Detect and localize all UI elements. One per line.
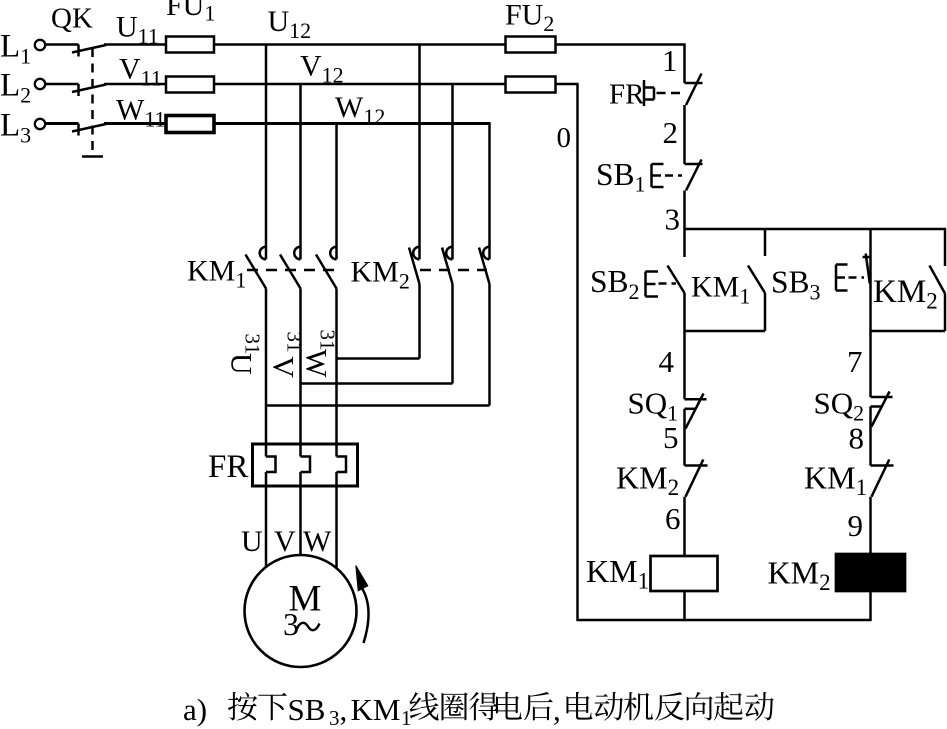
svg-text:KM: KM bbox=[351, 692, 401, 727]
svg-text:3: 3 bbox=[283, 606, 299, 642]
svg-text:W: W bbox=[303, 525, 332, 558]
svg-text:U: U bbox=[225, 353, 258, 375]
svg-text:7: 7 bbox=[847, 344, 863, 379]
svg-text:9: 9 bbox=[848, 508, 864, 543]
svg-text:31: 31 bbox=[241, 334, 265, 355]
svg-text:0: 0 bbox=[557, 122, 572, 154]
svg-text:31: 31 bbox=[316, 330, 340, 351]
svg-text:,: , bbox=[340, 692, 348, 727]
svg-text:a): a) bbox=[183, 692, 207, 727]
svg-text:,: , bbox=[553, 692, 561, 727]
svg-text:FU1: FU1 bbox=[166, 0, 215, 26]
svg-text:1: 1 bbox=[662, 43, 678, 78]
svg-text:FR: FR bbox=[609, 79, 645, 111]
svg-text:V: V bbox=[274, 525, 296, 558]
svg-text:3: 3 bbox=[665, 202, 681, 237]
svg-text:W: W bbox=[300, 349, 333, 378]
svg-text:V: V bbox=[267, 356, 300, 378]
svg-text:6: 6 bbox=[665, 501, 681, 536]
svg-text:3: 3 bbox=[329, 706, 340, 729]
svg-text:FR: FR bbox=[208, 449, 248, 485]
svg-text:QK: QK bbox=[51, 3, 93, 35]
svg-text:U: U bbox=[241, 525, 263, 558]
svg-text:SB: SB bbox=[288, 692, 326, 727]
svg-text:2: 2 bbox=[663, 115, 679, 150]
svg-text:4: 4 bbox=[659, 344, 675, 379]
svg-text:8: 8 bbox=[849, 421, 865, 456]
